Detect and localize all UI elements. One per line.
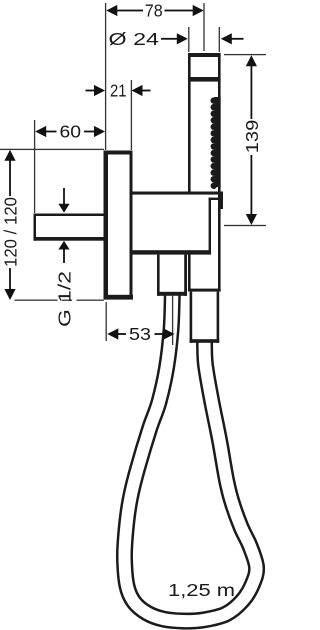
dimension 53 [106,295,175,345]
dimension 60 [34,120,105,213]
svg-text:21: 21 [110,81,127,101]
svg-text:139: 139 [242,120,262,154]
dimension 139 (right vertical) [224,54,266,226]
svg-text:60: 60 [60,122,82,142]
svg-text:78: 78 [145,1,163,21]
hand shower wand [188,53,221,292]
dimension 78 (top) [105,1,205,150]
svg-text:Ø 24: Ø 24 [109,29,160,49]
dimension diameter 24 [109,27,244,52]
svg-text:1,25 m: 1,25 m [168,580,235,600]
dimension 120/120 (left vertical) [0,149,104,301]
holder body [133,192,224,255]
svg-text:53: 53 [129,324,151,344]
spray nozzle strip [211,97,221,189]
hose length label 1,25 m [168,580,235,600]
hose loop outline [124,295,256,622]
dimension G 1/2 (spout thread) [55,188,75,327]
dimension 21 [86,80,151,150]
hose outlet connector [157,255,187,296]
svg-text:120 / 120: 120 / 120 [1,197,21,267]
wall spout G1/2 connection [34,214,105,241]
hose nut under handle [190,292,220,343]
wall plate (escutcheon, side view) [104,151,134,300]
svg-text:G 1/2: G 1/2 [55,271,75,327]
